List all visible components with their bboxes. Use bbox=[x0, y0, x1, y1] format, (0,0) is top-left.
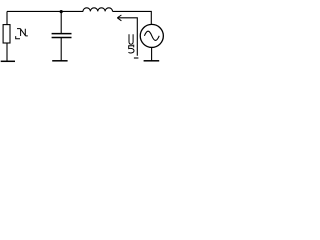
wire left vertical from top rail down to box ZL bbox=[6, 11, 8, 24]
capacitor C bottom lead bbox=[60, 38, 62, 61]
label Uq main glyph U bbox=[129, 34, 135, 53]
voltage arrow Uq shaft and top run bbox=[118, 18, 137, 56]
voltage arrow Uq tail tick bbox=[134, 57, 139, 59]
capacitor C bottom plate bbox=[52, 37, 72, 39]
wire top rail middle segment to inductor bbox=[61, 10, 83, 12]
label ZL subscript L bbox=[16, 36, 20, 39]
wire top rail right segment and corner down to source bbox=[113, 11, 152, 24]
voltage arrow Uq head bbox=[117, 15, 121, 21]
node junction at capacitor tap bbox=[60, 10, 63, 13]
inductor L bbox=[83, 8, 113, 12]
label Uq subscript q descender bbox=[133, 45, 135, 48]
label Uq subscript q loop bbox=[129, 46, 135, 53]
wire box ZL bottom to ground bbox=[6, 43, 8, 61]
wire source bottom to ground bbox=[151, 48, 153, 61]
impedance box ZL bbox=[3, 25, 10, 43]
wire top rail left segment bbox=[7, 10, 61, 12]
label ZL main glyph bbox=[16, 29, 28, 39]
capacitor C top lead bbox=[60, 11, 62, 33]
ground GND1 bbox=[1, 60, 15, 62]
AC source U circle bbox=[140, 24, 163, 47]
ground GND2 bbox=[52, 60, 67, 62]
capacitor C top plate bbox=[52, 33, 72, 35]
AC source sine wave bbox=[144, 31, 159, 40]
ground GND3 bbox=[144, 60, 160, 62]
